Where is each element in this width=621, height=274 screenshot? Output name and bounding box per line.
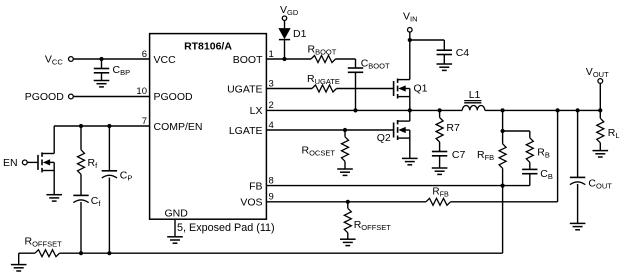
svg-text:R7: R7 bbox=[446, 122, 460, 134]
svg-text:C7: C7 bbox=[452, 149, 466, 161]
svg-text:2: 2 bbox=[269, 100, 274, 111]
svg-text:VCC: VCC bbox=[45, 53, 63, 66]
svg-text:10: 10 bbox=[136, 86, 147, 97]
svg-text:ROCSET: ROCSET bbox=[302, 144, 336, 157]
svg-text:RB: RB bbox=[537, 147, 550, 160]
svg-text:Cf: Cf bbox=[91, 195, 102, 208]
svg-text:PGOOD: PGOOD bbox=[154, 91, 194, 103]
svg-text:LX: LX bbox=[250, 105, 263, 117]
svg-text:L1: L1 bbox=[469, 89, 481, 101]
svg-text:VOUT: VOUT bbox=[586, 66, 609, 79]
svg-text:5, Exposed Pad (11): 5, Exposed Pad (11) bbox=[177, 222, 275, 234]
svg-text:CB: CB bbox=[540, 168, 553, 181]
svg-text:FB: FB bbox=[249, 180, 262, 192]
svg-text:VOS: VOS bbox=[240, 196, 262, 208]
svg-text:ROFFSET: ROFFSET bbox=[354, 219, 392, 232]
svg-text:BOOT: BOOT bbox=[233, 54, 263, 66]
svg-text:RT8106/A: RT8106/A bbox=[184, 41, 232, 53]
svg-text:RBOOT: RBOOT bbox=[308, 43, 337, 56]
svg-text:RFB: RFB bbox=[432, 186, 449, 198]
svg-text:Q1: Q1 bbox=[414, 83, 428, 95]
svg-text:RL: RL bbox=[608, 127, 620, 140]
svg-text:C4: C4 bbox=[456, 47, 470, 59]
svg-text:COUT: COUT bbox=[588, 177, 612, 190]
svg-text:PGOOD: PGOOD bbox=[25, 91, 65, 103]
svg-text:GND: GND bbox=[165, 207, 189, 219]
svg-text:ROFFSET: ROFFSET bbox=[25, 236, 63, 249]
svg-text:CBP: CBP bbox=[113, 64, 131, 77]
svg-text:RFB: RFB bbox=[477, 149, 494, 162]
svg-text:Q2: Q2 bbox=[377, 132, 391, 144]
svg-text:LGATE: LGATE bbox=[229, 125, 263, 137]
svg-text:CBOOT: CBOOT bbox=[361, 58, 390, 71]
svg-text:D1: D1 bbox=[293, 28, 307, 40]
svg-text:8: 8 bbox=[269, 176, 274, 187]
svg-text:VCC: VCC bbox=[154, 54, 177, 66]
svg-text:9: 9 bbox=[269, 192, 274, 203]
svg-text:Rf: Rf bbox=[88, 157, 99, 170]
svg-text:RUGATE: RUGATE bbox=[307, 73, 340, 86]
svg-text:CP: CP bbox=[120, 169, 133, 182]
svg-text:VIN: VIN bbox=[403, 11, 418, 24]
svg-text:UGATE: UGATE bbox=[227, 83, 262, 95]
svg-text:VGD: VGD bbox=[280, 4, 299, 17]
svg-text:COMP/EN: COMP/EN bbox=[154, 121, 203, 133]
svg-text:EN: EN bbox=[3, 157, 18, 169]
